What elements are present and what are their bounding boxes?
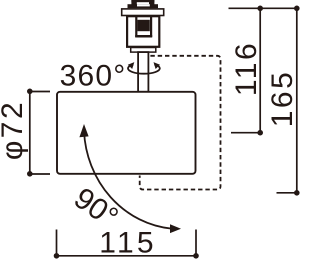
rotation arrowhead right (154, 62, 161, 69)
dimension 116 line (231, 8, 260, 132)
stem (138, 52, 148, 92)
lamp shade body (57, 92, 196, 174)
adapter inner slot (U shape) (135, 16, 152, 37)
top reference line (229, 7, 299, 9)
dimension phi-72 line (30, 91, 50, 174)
svg-text:165: 165 (266, 70, 299, 128)
track adapter body (127, 16, 159, 47)
svg-text:φ72: φ72 (0, 100, 29, 160)
svg-text:115: 115 (99, 227, 156, 260)
90-degree arc arrowhead up (79, 124, 88, 137)
adapter lower flange (131, 48, 156, 53)
dimension 165 dots (294, 6, 300, 12)
dimension 115 dots (54, 253, 60, 259)
adapter inner dark block (137, 20, 149, 31)
dashed rotated-position outline (140, 56, 221, 190)
90-degree arc arrowhead right (170, 224, 181, 233)
svg-text:360°: 360° (60, 60, 127, 93)
dimension 115 line (57, 230, 197, 256)
dimension phi-72 dots (27, 89, 33, 95)
rotation arrowhead left (128, 62, 135, 69)
track adapter top contact bar (131, 0, 154, 5)
360-degree rotation ellipse arrow (128, 64, 160, 73)
dimension 116 dots (257, 6, 263, 12)
dimension 165 line (277, 8, 297, 193)
track adapter second bar (128, 4, 159, 8)
track adapter upper flange (122, 9, 164, 16)
svg-text:116: 116 (230, 41, 263, 96)
90-degree swing arc (84, 131, 172, 229)
